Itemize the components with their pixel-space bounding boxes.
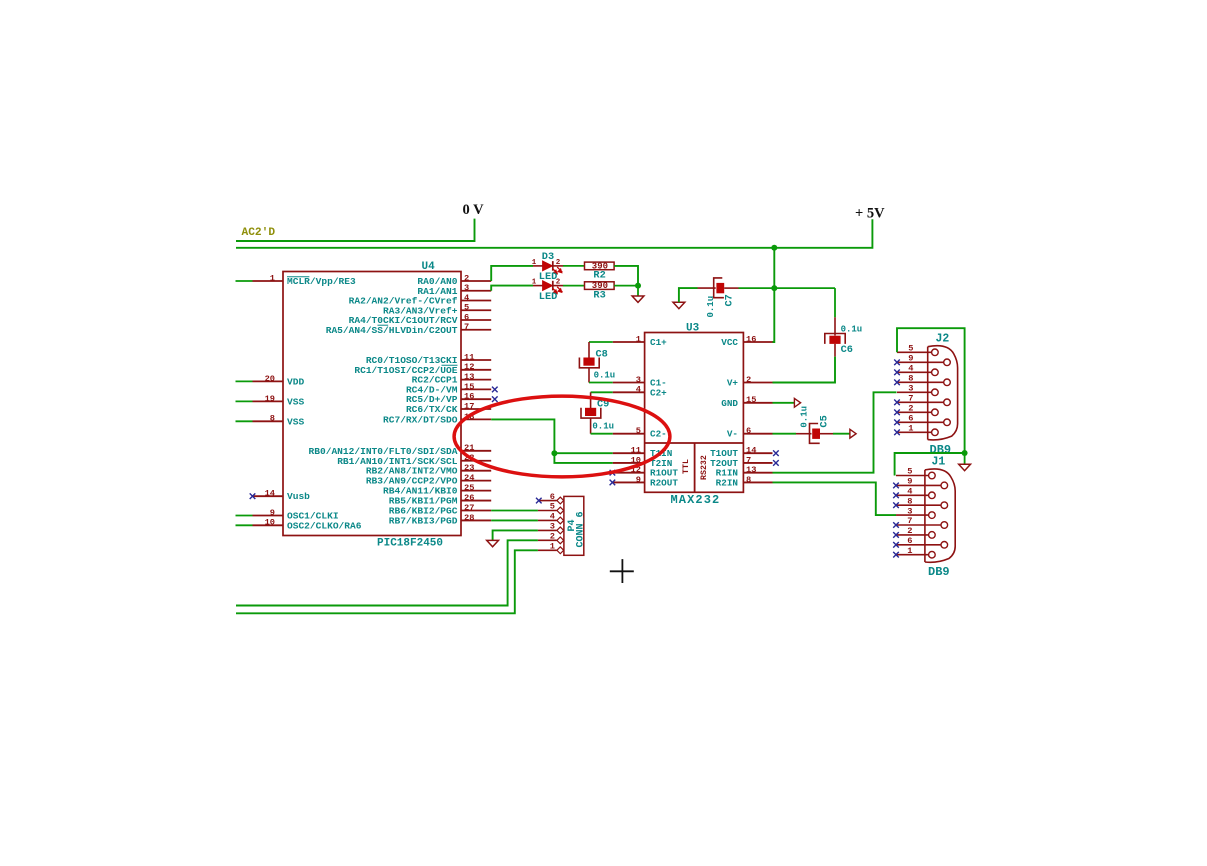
wire C7 to +5V net — [739, 287, 836, 289]
svg-text:RS232: RS232 — [700, 455, 709, 480]
pin 9 (J1) — [896, 484, 941, 486]
svg-text:2: 2 — [550, 532, 555, 542]
pin 17 RC6/TX/CK (U4 right) — [461, 408, 491, 410]
connector J1 body — [924, 470, 926, 562]
pin 14 Vusb (U4 left) — [253, 495, 284, 497]
svg-text:27: 27 — [464, 503, 474, 513]
svg-text:0 V: 0 V — [463, 202, 485, 218]
svg-text:PIC18F2450: PIC18F2450 — [377, 538, 443, 550]
wire GND pin — [773, 402, 795, 404]
pin 1 C1+ (U3 left) — [613, 341, 645, 343]
pin 12 RC1/T1OSI/CCP2/UOE (U4 right) — [461, 369, 491, 371]
wire RB7 to P4 pin4 — [491, 519, 538, 521]
svg-text:16: 16 — [746, 334, 756, 344]
wire C2+ to C9 — [591, 391, 613, 393]
connector P4 CONN_6 body — [564, 496, 584, 555]
svg-text:0.1u: 0.1u — [841, 325, 863, 335]
pin 13 R1IN (U3 right) — [743, 472, 772, 474]
svg-text:R3: R3 — [593, 289, 605, 301]
resistor R2 390 — [563, 265, 585, 267]
pin 2 RA0/AN0 (U4 right) — [461, 280, 491, 282]
pin 24 RB3/AN9/CCP2/VPO (U4 right) — [461, 480, 491, 482]
pin 1 (J2) — [897, 431, 932, 433]
svg-text:1: 1 — [908, 424, 913, 434]
svg-text:J2: J2 — [936, 333, 950, 346]
resistor R3 390 — [563, 285, 585, 287]
pin 7 (J2) — [897, 401, 944, 403]
pin 2 (P4) — [538, 539, 557, 541]
svg-text:3: 3 — [908, 384, 913, 394]
pin 8 VSS (U4 left) — [253, 420, 284, 422]
svg-text:V+: V+ — [727, 378, 739, 389]
wire RA1 to LED D4 — [491, 286, 533, 291]
svg-text:4: 4 — [907, 487, 912, 497]
svg-text:VSS: VSS — [287, 416, 304, 427]
svg-text:1: 1 — [636, 334, 641, 344]
junction R2/R3 — [635, 283, 641, 289]
svg-text:0.1u: 0.1u — [799, 406, 809, 428]
pin 3 RA1/AN1 (U4 right) — [461, 290, 491, 292]
ground (DB9) — [959, 464, 971, 470]
svg-text:8: 8 — [907, 496, 912, 506]
svg-text:D3: D3 — [542, 251, 554, 263]
wire RB6 to P4 pin5 — [491, 510, 538, 512]
pin 5 RA3/AN3/Vref+ (U4 right) — [461, 309, 491, 311]
svg-text:C5: C5 — [818, 415, 830, 427]
pin 7 (J1) — [896, 524, 941, 526]
svg-text:5: 5 — [908, 344, 913, 354]
svg-text:U3: U3 — [686, 323, 700, 335]
svg-text:R2IN: R2IN — [716, 477, 738, 488]
capacitor C5 0.1u — [796, 433, 812, 435]
pin 6 RA4/T0CKI/C1OUT/RCV (U4 right) — [461, 319, 491, 321]
svg-text:6: 6 — [908, 414, 913, 424]
pin 4 C2+ (U3 left) — [613, 391, 645, 393]
pin 7 RA5/AN4/SS/HLVDin/C2OUT (U4 right) — [461, 329, 491, 331]
svg-text:TTL: TTL — [682, 459, 691, 474]
op-amp U4 PIC18F2450 body — [283, 272, 461, 536]
svg-text:4: 4 — [464, 293, 469, 303]
capacitor C8 0.1u — [588, 342, 590, 360]
pin 26 RB5/KBI1/PGM (U4 right) — [461, 500, 491, 502]
wire to T2IN — [554, 453, 612, 463]
wire V- to C5 — [773, 433, 797, 435]
pin 2 V+ (U3 right) — [743, 382, 772, 384]
off-page arrow (GND) — [794, 398, 800, 407]
svg-text:6: 6 — [464, 312, 469, 322]
pin 14 T1OUT (U3 right) — [743, 452, 772, 454]
svg-text:VCC: VCC — [721, 337, 738, 348]
wire VCC up to +5V rail — [773, 248, 775, 342]
pin 10 OSC2/CLKO/RA6 (U4 left) — [253, 524, 284, 526]
wire 0V rail — [236, 219, 475, 241]
svg-text:2: 2 — [908, 404, 913, 414]
ground (P4 pin3) — [487, 540, 499, 546]
pin 18 RC7/RX/DT/SDO (U4 right) — [461, 418, 491, 420]
svg-text:3: 3 — [907, 506, 912, 516]
svg-text:26: 26 — [464, 493, 474, 503]
svg-text:28: 28 — [464, 513, 474, 523]
svg-text:5: 5 — [907, 467, 912, 477]
svg-text:14: 14 — [746, 446, 756, 456]
wire R2IN to J1 pin3 — [773, 482, 897, 515]
svg-text:V-: V- — [727, 429, 738, 440]
pin 4 (J2) — [897, 371, 932, 373]
svg-text:14: 14 — [265, 489, 275, 499]
pin 13 RC2/CCP1 (U4 right) — [461, 379, 491, 381]
pin 22 RB1/AN10/INT1/SCK/SCL (U4 right) — [461, 460, 491, 462]
svg-text:1: 1 — [532, 279, 537, 287]
wire C1+ to C8 — [589, 341, 613, 343]
pin 1 (J1) — [896, 554, 929, 556]
pin 3 (J1) — [896, 514, 929, 516]
svg-text:LED: LED — [539, 271, 558, 283]
svg-text:16: 16 — [464, 392, 474, 402]
svg-text:3: 3 — [636, 375, 641, 385]
pin 8 (J1) — [896, 504, 941, 506]
off-page arrow (C5) — [850, 429, 856, 438]
svg-text:0.1u: 0.1u — [592, 422, 614, 432]
wire RC7 to T1IN — [491, 419, 613, 453]
pin 8 R2IN (U3 right) — [743, 481, 772, 483]
svg-text:LED: LED — [539, 291, 558, 303]
svg-text:OSC2/CLKO/RA6: OSC2/CLKO/RA6 — [287, 520, 362, 531]
pin 15 GND (U3 right) — [743, 402, 772, 404]
svg-text:U4: U4 — [422, 261, 436, 273]
svg-text:24: 24 — [464, 473, 474, 483]
svg-text:6: 6 — [907, 536, 912, 546]
wire R2 out — [614, 266, 638, 286]
svg-text:19: 19 — [265, 394, 275, 404]
svg-text:17: 17 — [464, 401, 474, 411]
svg-text:2: 2 — [556, 279, 561, 287]
pin 28 RB7/KBI3/PGD (U4 right) — [461, 519, 491, 521]
pin 27 RB6/KBI2/PGC (U4 right) — [461, 510, 491, 512]
pin 15 RC4/D-/VM (U4 right) — [461, 388, 491, 390]
pin 5 (P4) — [538, 510, 557, 512]
svg-text:MAX232: MAX232 — [671, 493, 721, 507]
pin 9 (J2) — [897, 361, 944, 363]
svg-text:6: 6 — [550, 492, 555, 502]
svg-text:RB7/KBI3/PGD: RB7/KBI3/PGD — [389, 515, 458, 526]
wire R3 out — [614, 285, 638, 287]
wire to DB9 ground — [964, 453, 966, 464]
svg-text:25: 25 — [464, 483, 474, 493]
svg-text:RC7/RX/DT/SDO: RC7/RX/DT/SDO — [383, 414, 458, 425]
wire C8 to C1- — [589, 382, 613, 384]
svg-text:2: 2 — [556, 259, 561, 267]
svg-text:20: 20 — [265, 374, 275, 384]
svg-text:2: 2 — [907, 526, 912, 536]
wire RA0 to LED D3 — [491, 266, 533, 281]
wire P4 pin3 to ground — [493, 530, 538, 540]
wire +5V to C6 — [834, 288, 836, 317]
pin 5 (J2) — [897, 351, 932, 353]
svg-text:11: 11 — [631, 446, 641, 456]
pin 9 OSC1/CLKI (U4 left) — [253, 515, 284, 517]
annotation ellipse — [454, 396, 670, 477]
svg-text:1: 1 — [907, 546, 912, 556]
wire C5 out — [833, 433, 850, 435]
svg-text:7: 7 — [464, 322, 469, 332]
svg-text:VSS: VSS — [287, 396, 304, 407]
pin 6 (P4) — [538, 500, 557, 502]
svg-text:7: 7 — [908, 394, 913, 404]
svg-text:DB9: DB9 — [928, 565, 950, 579]
svg-text:RA5/AN4/SS/HLVDin/C2OUT: RA5/AN4/SS/HLVDin/C2OUT — [326, 325, 458, 336]
svg-text:C7: C7 — [724, 294, 736, 306]
svg-text:0.1u: 0.1u — [594, 370, 616, 380]
pin 16 RC5/D+/VP (U4 right) — [461, 398, 491, 400]
wire +5V rail — [236, 219, 872, 248]
svg-text:10: 10 — [265, 518, 275, 528]
svg-text:C8: C8 — [596, 348, 608, 360]
pin 8 (J2) — [897, 381, 944, 383]
pin 2 (J2) — [897, 411, 932, 413]
svg-text:R2OUT: R2OUT — [650, 477, 678, 488]
svg-text:+ 5V: + 5V — [855, 206, 885, 222]
pin 4 RA2/AN2/Vref-/CVref (U4 right) — [461, 300, 491, 302]
pin 19 VSS (U4 left) — [253, 400, 284, 402]
pin 1 MCLR/Vpp/RE3 (U4 left) — [253, 280, 284, 282]
pin 6 (J1) — [896, 544, 941, 546]
cursor crosshair — [610, 559, 634, 583]
svg-text:4: 4 — [636, 385, 641, 395]
svg-text:R2: R2 — [593, 270, 605, 282]
svg-text:J1: J1 — [932, 456, 946, 469]
pin 11 T1IN (U3 left) — [613, 452, 645, 454]
LED D4 — [533, 285, 543, 287]
svg-text:GND: GND — [721, 398, 738, 409]
svg-text:3: 3 — [464, 283, 469, 293]
pin 3 C1- (U3 left) — [613, 382, 645, 384]
connector J2 body — [927, 347, 929, 440]
svg-text:1: 1 — [270, 273, 275, 283]
svg-text:RC6/TX/CK: RC6/TX/CK — [406, 404, 458, 415]
svg-text:1: 1 — [532, 259, 537, 267]
junction +5V rail — [771, 245, 777, 251]
pin 10 T2IN (U3 left) — [613, 462, 645, 464]
svg-text:13: 13 — [746, 465, 756, 475]
svg-text:C2-: C2- — [650, 429, 667, 440]
wire R1IN to J2 pin3 — [773, 392, 897, 472]
svg-text:5: 5 — [464, 303, 469, 313]
svg-text:7: 7 — [746, 455, 751, 465]
pin 4 (J1) — [896, 494, 929, 496]
pin 9 R2OUT (U3 left) — [613, 481, 645, 483]
pin 3 (P4) — [538, 529, 557, 531]
svg-text:23: 23 — [464, 463, 474, 473]
svg-text:8: 8 — [746, 475, 751, 485]
junction DB9 ground — [962, 450, 968, 456]
capacitor C9 0.1u — [590, 392, 592, 410]
LED D3 — [533, 265, 543, 267]
pin 12 R1OUT (U3 left) — [613, 472, 645, 474]
ground (C7) — [673, 302, 685, 308]
capacitor C6 0.1u — [834, 317, 836, 335]
svg-text:1: 1 — [550, 542, 555, 552]
svg-text:8: 8 — [908, 374, 913, 384]
svg-text:21: 21 — [464, 443, 474, 453]
svg-text:12: 12 — [464, 362, 474, 372]
svg-text:11: 11 — [464, 352, 474, 362]
svg-text:9: 9 — [908, 354, 913, 364]
svg-text:15: 15 — [464, 382, 474, 392]
pin 11 RC0/T1OSO/T13CKI (U4 right) — [461, 359, 491, 361]
pin 6 (J2) — [897, 421, 944, 423]
wire P4 pin2 — [236, 540, 538, 605]
wire to ground — [637, 286, 639, 296]
wire C9 to C2- — [591, 433, 613, 435]
svg-text:2: 2 — [464, 273, 469, 283]
pin 4 (P4) — [538, 519, 557, 521]
svg-text:15: 15 — [746, 395, 756, 405]
svg-text:CONN_6: CONN_6 — [576, 511, 587, 547]
svg-text:2: 2 — [746, 375, 751, 385]
svg-text:9: 9 — [636, 475, 641, 485]
svg-text:4: 4 — [908, 364, 913, 374]
svg-text:4: 4 — [550, 512, 555, 522]
svg-text:AC2'D: AC2'D — [242, 227, 276, 239]
pin 23 RB2/AN8/INT2/VMO (U4 right) — [461, 470, 491, 472]
svg-text:C1+: C1+ — [650, 337, 667, 348]
junction C7/VCC — [771, 285, 777, 291]
pin 1 (P4) — [538, 549, 557, 551]
svg-text:C2+: C2+ — [650, 387, 667, 398]
pin 25 RB4/AN11/KBI0 (U4 right) — [461, 490, 491, 492]
pin 5 (J1) — [896, 475, 929, 477]
svg-text:MCLR/Vpp/RE3: MCLR/Vpp/RE3 — [287, 276, 356, 287]
pin 20 VDD (U4 left) — [253, 380, 284, 382]
wire J1 pin5 frame — [895, 453, 965, 476]
pin 2 (J1) — [896, 534, 929, 536]
wire C6 to V+ — [773, 357, 836, 383]
pin 21 RB0/AN12/INT0/FLT0/SDI/SDA (U4 right) — [461, 450, 491, 452]
pin 3 (J2) — [897, 391, 932, 393]
svg-text:Vusb: Vusb — [287, 491, 310, 502]
svg-text:3: 3 — [550, 522, 555, 532]
pin 7 T2OUT (U3 right) — [743, 462, 772, 464]
wire J2 pin5 frame — [897, 328, 965, 453]
ground (LED resistors) — [632, 296, 644, 302]
pin 5 C2- (U3 left) — [613, 433, 645, 435]
svg-text:0.1u: 0.1u — [706, 296, 716, 318]
pin 16 VCC (U3 right) — [743, 341, 772, 343]
svg-text:6: 6 — [746, 426, 751, 436]
svg-text:9: 9 — [907, 477, 912, 487]
wire C7 ground lead — [679, 288, 698, 302]
op-amp U3 MAX232 body — [645, 333, 744, 493]
svg-text:VDD: VDD — [287, 376, 304, 387]
svg-text:C6: C6 — [841, 344, 853, 356]
svg-text:8: 8 — [270, 414, 275, 424]
wire P4 pin1 — [236, 550, 538, 613]
svg-text:7: 7 — [907, 516, 912, 526]
svg-text:5: 5 — [550, 502, 555, 512]
junction T1IN — [551, 450, 557, 456]
svg-text:9: 9 — [270, 508, 275, 518]
svg-text:13: 13 — [464, 372, 474, 382]
pin 6 V- (U3 right) — [743, 433, 772, 435]
svg-text:5: 5 — [636, 426, 641, 436]
capacitor C7 0.1u — [698, 287, 716, 289]
